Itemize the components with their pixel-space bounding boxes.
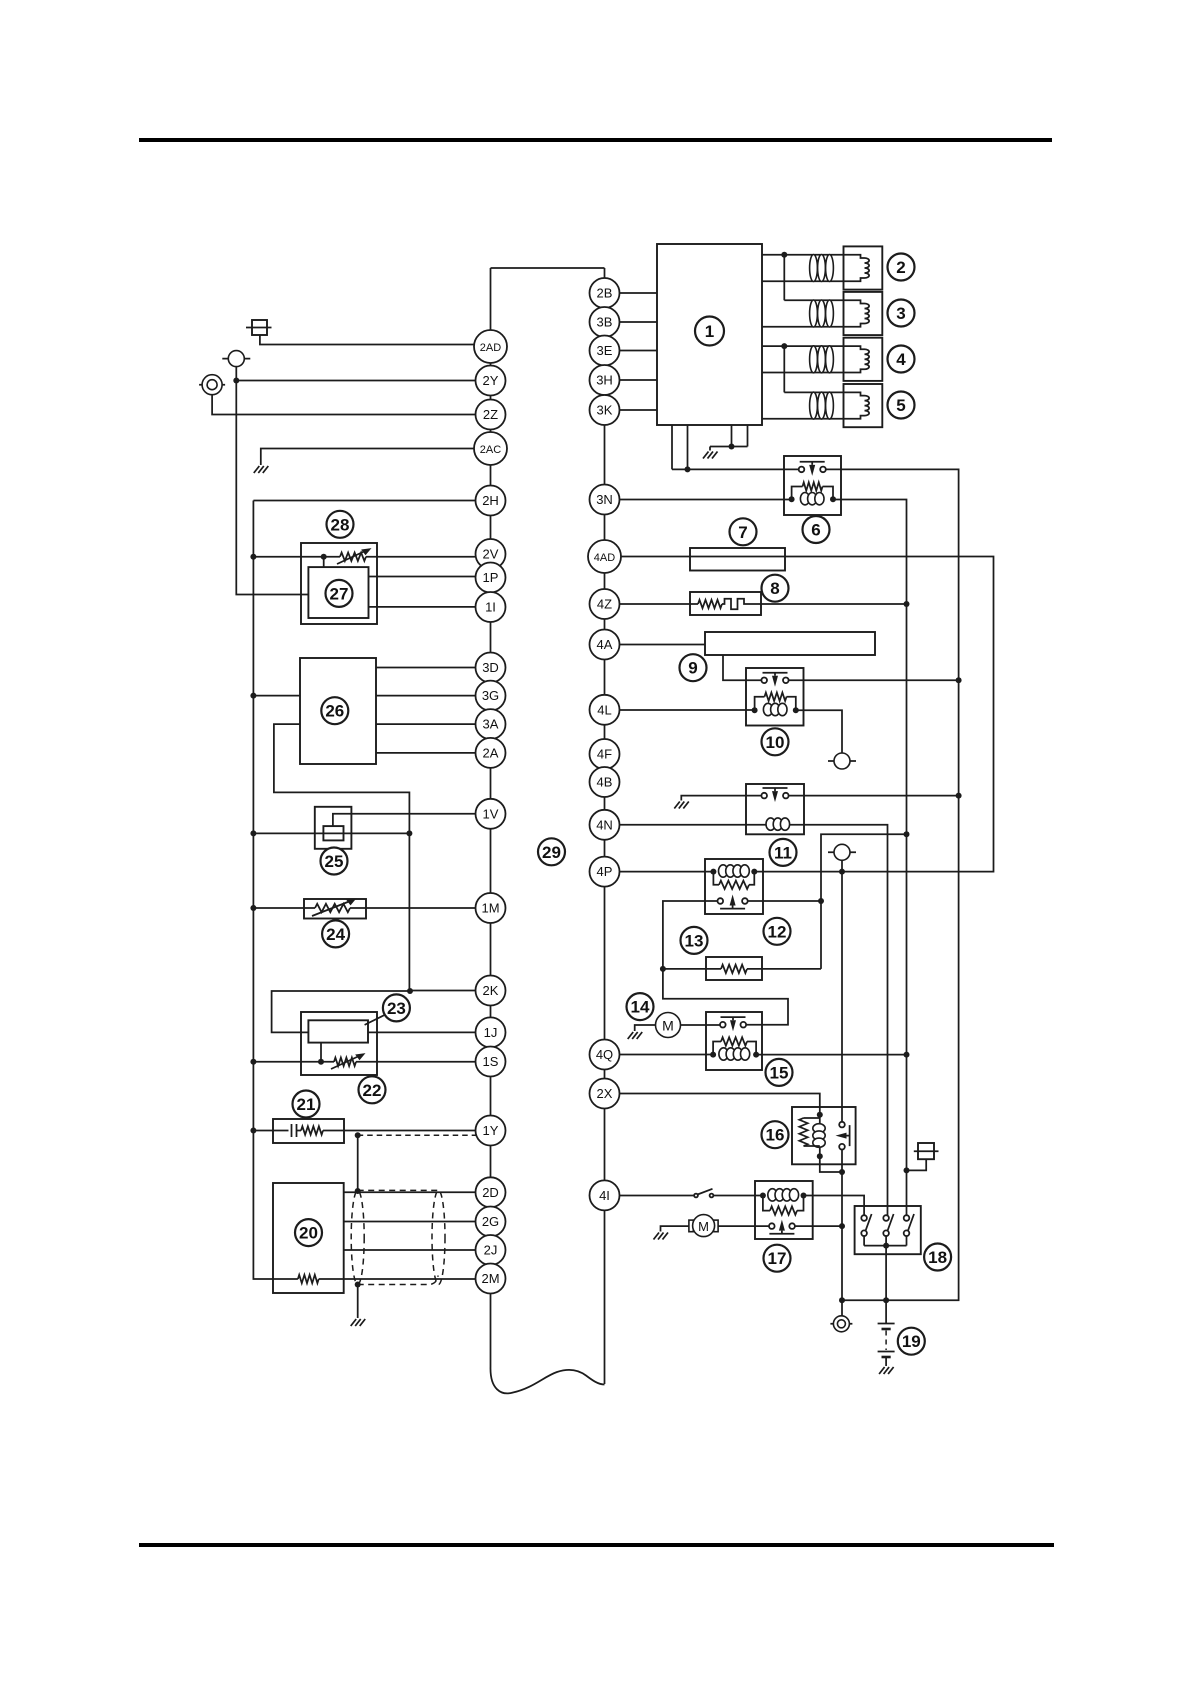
node relay 15 coil right: [753, 1052, 759, 1058]
component 24 box (variable resistor): [304, 899, 366, 919]
node 2AC connector: [474, 432, 507, 465]
ground bolt terminal (2Y): [222, 358, 250, 360]
svg-text:25: 25: [325, 852, 344, 871]
node relay 16 bottom: [817, 1153, 823, 1159]
wire shield drain vertical: [357, 1135, 359, 1190]
relay 12 coil: [719, 865, 728, 877]
node 4AD connector: [588, 540, 621, 573]
component 13 label: [681, 927, 708, 954]
sensor box 23 (inner): [308, 1020, 368, 1042]
variable resistor 28 arrow: [337, 552, 364, 565]
svg-text:3A: 3A: [483, 717, 499, 732]
wire 4AD through component 7 to right riser and 4P bus: [605, 557, 994, 872]
node 4I connector: [590, 1180, 620, 1210]
node riser/relay10: [956, 677, 962, 683]
wire relay 10 switch to right riser: [789, 679, 959, 681]
wire 2Y branch to sensor 27: [236, 381, 308, 595]
wire 4L to relay 10 coil: [605, 709, 755, 711]
node 4A connector: [590, 630, 620, 660]
variable resistor 22 arrow: [331, 1057, 358, 1070]
wire 3D: [376, 667, 491, 669]
node 4L connector: [590, 695, 620, 725]
node sensor25 tap: [406, 830, 412, 836]
node 2V bus tap: [250, 554, 256, 560]
wire 4Z to component 8: [605, 603, 699, 605]
ground (ECU): [703, 452, 718, 459]
wire 3G: [376, 695, 491, 697]
node 2B connector: [590, 278, 620, 308]
svg-text:4N: 4N: [596, 817, 613, 832]
wire 1M with variable resistor 24: [253, 907, 315, 909]
relay box 6: [784, 456, 841, 515]
node relay 15 coil left: [710, 1052, 716, 1058]
svg-text:2B: 2B: [597, 286, 613, 301]
svg-text:6: 6: [811, 521, 820, 540]
svg-text:21: 21: [297, 1095, 316, 1114]
svg-text:4Q: 4Q: [596, 1047, 613, 1062]
relay box 10: [746, 668, 804, 726]
svg-text:4F: 4F: [597, 747, 612, 762]
component 9 box (long module): [705, 632, 875, 655]
wire 2AD from connector: [260, 335, 491, 345]
node relay 10 coil left: [752, 707, 758, 713]
relay 10 resistor: [755, 697, 765, 711]
svg-text:4I: 4I: [599, 1188, 610, 1203]
node 1S bus tap: [250, 1059, 256, 1065]
component 15 label: [766, 1059, 793, 1086]
wire relay 10 output to bolt terminal: [796, 710, 842, 753]
node 4N connector: [590, 810, 620, 840]
double ring terminal (bottom): [830, 1323, 852, 1325]
relay 6 resistor: [792, 487, 803, 500]
svg-text:18: 18: [928, 1248, 947, 1267]
wire shield drain to 1Y (dashed): [358, 1134, 478, 1136]
node 25 bus tap: [250, 830, 256, 836]
node 4B connector: [590, 767, 620, 797]
motor 17 (starter): [718, 1225, 769, 1227]
node 4P connector: [590, 857, 620, 887]
svg-text:28: 28: [331, 515, 350, 534]
svg-text:15: 15: [770, 1063, 789, 1082]
ground (motor 14): [628, 1032, 643, 1039]
component 29 label (harness): [538, 838, 565, 865]
component 28 label: [327, 511, 354, 538]
node 4Q connector: [590, 1040, 620, 1070]
svg-text:4A: 4A: [597, 637, 613, 652]
svg-text:1Y: 1Y: [483, 1123, 499, 1138]
sensor box 20: [273, 1183, 344, 1293]
svg-text:1J: 1J: [484, 1025, 498, 1040]
component 3 label: [888, 300, 915, 327]
component 23 label + leader: [365, 1014, 388, 1025]
relay 15 resistor: [713, 1042, 721, 1055]
component 27 label: [326, 580, 353, 607]
node relay 17 coil left: [760, 1193, 766, 1199]
svg-text:4P: 4P: [597, 864, 613, 879]
node ECU ground junction: [729, 444, 735, 450]
node switch17 tap: [839, 1223, 845, 1229]
variable resistor 24 arrow: [312, 902, 349, 917]
svg-text:29: 29: [542, 843, 561, 862]
wire ignition switch to battery node: [885, 1246, 887, 1301]
sensor box 25 (outer): [315, 807, 352, 849]
wire terminal riser to bottom bus: [841, 1172, 843, 1316]
wire 2Y: [236, 367, 490, 381]
svg-text:4B: 4B: [597, 775, 613, 790]
node 1P connector: [476, 563, 506, 593]
spark plug coil inside cap: [846, 392, 865, 395]
node 1Y bus tap: [250, 1128, 256, 1134]
svg-text:2: 2: [896, 258, 905, 277]
wire 3N to relay 6 coil: [605, 499, 792, 501]
ground (shield): [351, 1319, 366, 1326]
node relay 10 coil right: [793, 707, 799, 713]
node coil2 feed: [781, 252, 787, 258]
relay box 16: [792, 1107, 856, 1164]
node ignition switch common: [883, 1243, 889, 1249]
spark plug coil inside cap: [846, 255, 865, 258]
node 3D connector: [476, 653, 506, 683]
component 10 label: [762, 728, 789, 755]
relay 10 switch contacts: [763, 673, 788, 676]
component 9 label: [680, 654, 707, 681]
node 2H connector: [476, 486, 506, 516]
node 2V connector: [476, 539, 506, 569]
node 3B connector: [590, 307, 620, 337]
node coil4 feed: [781, 343, 787, 349]
ignition lead grommet rings: [810, 392, 818, 419]
svg-text:3N: 3N: [596, 492, 613, 507]
ground (motor 17): [654, 1233, 669, 1240]
node 3N connector: [590, 485, 620, 515]
node 4Z tap: [904, 601, 910, 607]
motor 14: [681, 1024, 720, 1026]
wire relay 11 switch to ground: [681, 796, 761, 801]
relay 6 switch contacts: [800, 462, 825, 465]
node battery junction: [883, 1297, 889, 1303]
wire relay 17 switch to terminal riser: [795, 1225, 842, 1227]
wire 4N to relay 11 coil: [605, 824, 767, 826]
wire harness top outline: [491, 267, 605, 269]
wire relay 11 switch to right riser: [789, 795, 959, 797]
wire harness torn-end curve: [490, 1367, 604, 1393]
ignition switch pole 3: [904, 1215, 910, 1221]
svg-text:3K: 3K: [597, 403, 613, 418]
component 13 resistor: [721, 965, 747, 973]
relay 16 resistor: [804, 1117, 820, 1119]
svg-text:M: M: [662, 1018, 674, 1034]
node 2X connector: [590, 1079, 620, 1109]
double ring terminal (2Z): [199, 384, 225, 386]
node relay 6 coil right: [830, 496, 836, 502]
svg-text:3D: 3D: [482, 660, 499, 675]
component 8 pulse element: [722, 599, 748, 610]
wire 1I: [369, 606, 491, 608]
wire component 13 right: [706, 968, 821, 970]
bottom rule: [139, 1543, 1054, 1547]
svg-text:12: 12: [768, 922, 787, 941]
relay 17 resistor: [763, 1196, 770, 1211]
svg-text:2X: 2X: [597, 1086, 613, 1101]
ignition switch pole 2: [883, 1215, 889, 1221]
node motor-feed/13: [660, 966, 666, 972]
relay 17 switch contacts: [769, 1231, 794, 1234]
ignition lead grommet rings: [810, 300, 818, 327]
node 2Z connector: [476, 400, 506, 430]
node 3G connector: [476, 681, 506, 711]
node relay 16 top: [817, 1112, 823, 1118]
component 7 label: [730, 518, 757, 545]
wire 2X to relay 16: [605, 1094, 820, 1115]
svg-text:27: 27: [330, 584, 349, 603]
wire ignition lead bottom (row at 359.3): [762, 372, 846, 374]
svg-text:26: 26: [325, 702, 344, 721]
svg-text:4L: 4L: [597, 702, 611, 717]
svg-text:4: 4: [896, 350, 906, 369]
wire 3E to ECU: [605, 350, 658, 352]
wire 2K to sensor 23: [272, 991, 491, 1033]
relay 6 coil: [800, 493, 809, 505]
wire 3G left segment: [253, 695, 300, 697]
node 28 wiper: [321, 554, 327, 560]
wire ignition lead bottom (row at 268): [762, 280, 846, 282]
component 26 label: [321, 697, 348, 724]
svg-text:10: 10: [766, 733, 785, 752]
spark plug cap box: [844, 246, 883, 289]
wire ignition lead top (row at 313.5): [784, 299, 846, 301]
wire ignition lead top (row at 405.6): [784, 391, 846, 393]
wire 2V with variable resistor 28: [253, 556, 340, 558]
svg-text:22: 22: [363, 1081, 382, 1100]
component 25 label: [321, 848, 348, 875]
node 1J connector: [476, 1017, 506, 1047]
component 8 label: [762, 575, 789, 602]
spark plug cap box: [844, 338, 883, 381]
component 22 label: [359, 1076, 386, 1103]
node relay 6 coil left: [789, 496, 795, 502]
node 4Q tap: [904, 1052, 910, 1058]
svg-text:19: 19: [902, 1332, 921, 1351]
component 20 label: [295, 1219, 322, 1246]
wire sensor 25 case line: [253, 832, 409, 834]
node 23/22 tap: [318, 1059, 324, 1065]
node relay12 switch tap: [904, 831, 910, 837]
svg-text:9: 9: [688, 659, 697, 678]
component 5 label: [888, 392, 915, 419]
svg-text:2D: 2D: [482, 1185, 499, 1200]
node 4P/terminal riser junction: [839, 869, 845, 875]
component 2 label: [888, 254, 915, 281]
node 2J connector: [476, 1235, 506, 1265]
wire 1J: [368, 1031, 491, 1033]
wire ECU ground stubs: [710, 425, 748, 451]
wire 3H to ECU: [605, 379, 658, 381]
ignition lead grommet rings: [810, 255, 818, 282]
sensor box 26: [300, 658, 376, 764]
relay 12 switch contacts: [720, 906, 745, 909]
inline switch (4I): [694, 1194, 698, 1198]
node 1I connector: [476, 592, 506, 622]
relay 16 coil axis: [819, 1115, 821, 1156]
node 3H connector: [590, 365, 620, 395]
component 21 label: [293, 1091, 320, 1118]
node relay16/terminal riser: [839, 1169, 845, 1175]
component 19 label: [898, 1328, 925, 1355]
node relay12/resistor13: [818, 898, 824, 904]
wire 21 to 1Y: [323, 1130, 491, 1132]
node 2G connector: [476, 1207, 506, 1237]
node 3K connector: [590, 395, 620, 425]
node 3E connector: [590, 336, 620, 366]
wire connector to 3N riser: [907, 1159, 927, 1170]
relay box 17: [755, 1181, 813, 1239]
wire 2B to ECU: [605, 292, 658, 294]
wire ignition lead top (row at 268): [762, 254, 846, 256]
relay 15 switch contacts: [721, 1017, 746, 1020]
svg-text:2AD: 2AD: [480, 342, 501, 354]
node shield bottom: [355, 1282, 361, 1288]
node connector tap: [904, 1167, 910, 1173]
ground (2AC): [254, 466, 268, 473]
wire 4Q to relay 15 coil: [605, 1054, 714, 1056]
wire 2AC: [261, 449, 491, 466]
svg-text:13: 13: [685, 931, 704, 950]
svg-text:20: 20: [299, 1224, 318, 1243]
battery 19: [885, 1300, 887, 1323]
relay box 11: [746, 784, 804, 834]
svg-text:2J: 2J: [484, 1243, 498, 1258]
node 2M connector: [476, 1264, 506, 1294]
wire component 8 to 3N riser: [748, 603, 907, 605]
svg-text:2G: 2G: [482, 1214, 499, 1229]
svg-text:2Z: 2Z: [483, 407, 498, 422]
wire coil2-coil3 link: [783, 255, 785, 300]
sensor box 28 (outer): [301, 543, 377, 624]
svg-text:2Y: 2Y: [483, 373, 499, 388]
capacitor 21: [292, 1124, 302, 1137]
wire sensor 26 loop to 2K: [274, 724, 410, 991]
wire terminal riser through relay 16 switch: [841, 872, 843, 1122]
svg-text:8: 8: [770, 579, 779, 598]
resistor 21: [301, 1126, 323, 1134]
relay 11 coil: [766, 818, 775, 830]
node 2K/26 junction: [407, 988, 413, 994]
wire relay 15 coil to 3N riser: [756, 1054, 906, 1056]
op-amp U1 label 1: [695, 317, 724, 346]
node relay 17 coil right: [801, 1193, 807, 1199]
node 2AD connector: [474, 330, 507, 363]
wire ignition lead top (row at 359.3): [762, 345, 846, 347]
svg-text:2K: 2K: [483, 983, 499, 998]
svg-text:3: 3: [896, 304, 905, 323]
spark plug coil inside cap: [846, 300, 865, 303]
wire 3B to ECU: [605, 321, 658, 323]
node 2K connector: [476, 976, 506, 1006]
node 1S connector: [476, 1047, 506, 1077]
svg-text:3H: 3H: [596, 373, 613, 388]
svg-text:1M: 1M: [481, 901, 499, 916]
node 3A connector: [476, 709, 506, 739]
connector symbol (right): [918, 1143, 934, 1159]
wire 3A: [376, 723, 491, 725]
bolt terminal (above 4P junction): [828, 851, 856, 853]
component 17 label: [764, 1245, 791, 1272]
node riser/relay11: [956, 793, 962, 799]
node 4F connector: [590, 739, 620, 769]
svg-text:3G: 3G: [482, 688, 499, 703]
svg-text:17: 17: [768, 1249, 787, 1268]
ECU box 1: [657, 244, 762, 425]
component 4 label: [888, 346, 915, 373]
wire relay 6 switch to right riser / bottom bus: [826, 469, 959, 1300]
component 24 label: [322, 920, 349, 947]
wire coil4-coil5 link: [783, 346, 785, 392]
wire 4A to component 9: [605, 644, 706, 646]
ground (battery): [879, 1367, 894, 1374]
node shield top: [355, 1188, 361, 1194]
wire 1V to sensor 25: [333, 814, 491, 826]
connector symbol (top-left): [252, 320, 267, 335]
component 12 label: [764, 918, 791, 945]
wire 2A: [376, 752, 491, 754]
ignition switch common bar: [864, 1245, 906, 1247]
wire relay 12 switch right riser: [748, 834, 907, 969]
wire harness left trunk: [490, 268, 492, 1367]
node 4Z connector: [590, 589, 620, 619]
component 8 box (resistor/pulse unit): [690, 592, 761, 615]
svg-text:3E: 3E: [597, 343, 613, 358]
node shield drain top: [355, 1132, 361, 1138]
wire left bus from 2H down to sensor 20: [253, 501, 273, 1280]
svg-text:1S: 1S: [483, 1054, 499, 1069]
wire component 9 stub to relay 10 switch: [723, 655, 761, 680]
wire 1S with variable resistor 22: [253, 1061, 334, 1063]
wire 2M: [319, 1278, 491, 1280]
relay 15 coil: [719, 1048, 728, 1060]
sensor box 22 (outer): [301, 1012, 377, 1075]
svg-text:23: 23: [387, 999, 406, 1018]
svg-text:2V: 2V: [483, 547, 499, 562]
relay 16 coil: [813, 1124, 825, 1133]
svg-text:2H: 2H: [482, 493, 499, 508]
relay 16 switch contacts: [847, 1125, 850, 1146]
svg-text:1: 1: [705, 322, 714, 341]
component 18 label: [924, 1244, 951, 1271]
component 16 label: [762, 1121, 789, 1148]
relay 11 switch contacts: [763, 788, 788, 791]
wire 2H: [253, 500, 490, 502]
svg-text:7: 7: [738, 523, 747, 542]
node 2A connector: [476, 738, 506, 768]
resistor in sensor 20: [273, 1278, 298, 1280]
svg-text:3B: 3B: [597, 315, 613, 330]
spark plug cap box: [844, 384, 883, 427]
ignition switch box 18: [855, 1206, 921, 1254]
shielded cable (dashed shield): [358, 1190, 439, 1284]
wire relay 12 switch left to motor circuit: [663, 901, 788, 1025]
wire 4I to inline switch: [605, 1195, 695, 1197]
wire component 13 left: [663, 968, 706, 970]
relay box 15: [706, 1012, 762, 1070]
sensor box 27 (inner): [308, 567, 368, 618]
wire 2G: [344, 1221, 491, 1223]
node 2Y connector: [476, 366, 506, 396]
wire relay 11 coil to ignition switch middle pole: [790, 825, 888, 1215]
svg-text:2A: 2A: [483, 745, 499, 760]
component 7 box (diode block): [690, 548, 785, 571]
svg-text:1V: 1V: [483, 806, 499, 821]
wire ECU supply stubs: [672, 425, 688, 469]
